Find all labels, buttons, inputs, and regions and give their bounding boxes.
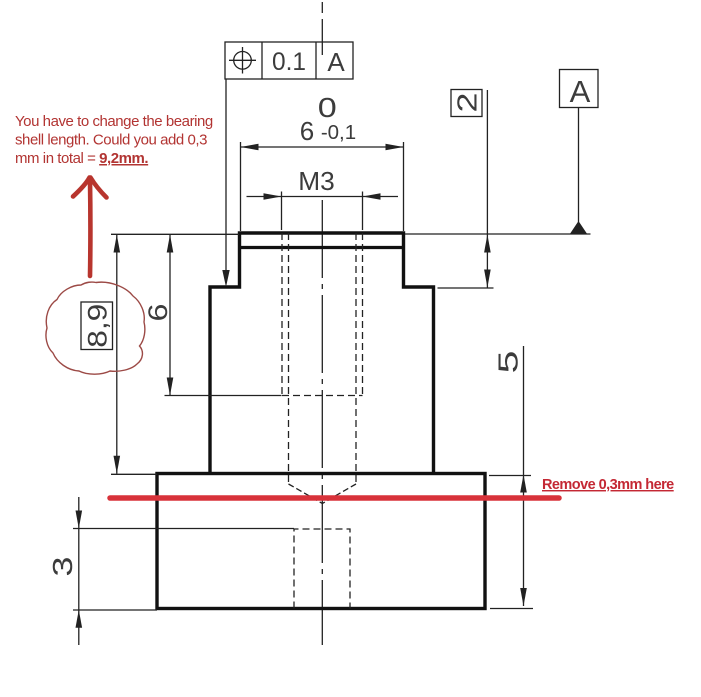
M3 right extension — [362, 192, 364, 231]
datum A box — [560, 70, 599, 108]
svg-text:6: 6 — [143, 304, 173, 322]
hidden drill cone — [289, 484, 357, 504]
groove line top plate — [240, 246, 404, 249]
dimension 6 -0,1 line — [241, 146, 404, 148]
svg-text:3: 3 — [47, 557, 78, 577]
part body upper outline — [210, 233, 434, 474]
dim 6 down arrow — [167, 378, 174, 396]
feature control frame — [225, 42, 353, 79]
svg-text:A: A — [570, 74, 591, 109]
svg-text:mm in total = 9,2mm.: mm in total = 9,2mm. — [15, 150, 148, 167]
M3 left arrow — [264, 193, 282, 200]
svg-text:0.1: 0.1 — [272, 48, 306, 76]
centerline — [321, 2, 323, 645]
dim 6-0,1 right extension — [403, 142, 405, 231]
svg-text:A: A — [327, 47, 345, 77]
svg-text:2: 2 — [451, 93, 482, 113]
dim 2 line — [486, 90, 488, 288]
hidden thread major left — [281, 233, 283, 396]
svg-text:-0,1: -0,1 — [321, 121, 356, 144]
hidden drill left — [288, 233, 290, 484]
top face extension line right — [405, 233, 591, 235]
dim 2 down arrow — [484, 270, 491, 288]
hidden thread bottom — [282, 395, 363, 397]
dim 6-0,1 left arrow — [241, 144, 259, 151]
dimension 3 line — [78, 497, 80, 645]
red removal line — [110, 495, 559, 501]
svg-text:Remove 0,3mm here: Remove 0,3mm here — [542, 477, 674, 493]
dim 8,9 bottom extension — [111, 473, 157, 475]
base flange — [157, 474, 485, 609]
dim 3 top arrow outside — [76, 511, 83, 529]
dim 5 down arrow — [520, 588, 527, 606]
M3 left extension — [281, 192, 283, 231]
leader line from frame — [225, 79, 227, 272]
dim 2 up arrow — [484, 235, 491, 253]
dim 5 top extension — [489, 475, 531, 477]
hidden thread major right — [362, 233, 364, 396]
red note text block — [15, 113, 213, 167]
dimension 2 box — [451, 90, 482, 117]
dim 6-0,1 left extension — [240, 142, 242, 231]
svg-text:6: 6 — [300, 116, 314, 146]
top face extension line left — [111, 233, 239, 235]
svg-text:M3: M3 — [298, 166, 335, 196]
leader arrow — [222, 270, 229, 287]
svg-text:0: 0 — [318, 92, 337, 123]
dim 5 bottom extension — [490, 608, 533, 610]
dim 6 bottom extension — [165, 395, 282, 397]
svg-text:shell length. Could you add 0,: shell length. Could you add 0,3 — [15, 132, 207, 149]
datum stem — [578, 108, 580, 223]
dim 3 bottom extension — [73, 609, 157, 611]
svg-text:5: 5 — [492, 351, 523, 374]
svg-text:8,9: 8,9 — [82, 304, 112, 348]
svg-text:You have to change the bearing: You have to change the bearing — [15, 113, 213, 130]
dim 3 bottom arrow outside — [76, 610, 83, 628]
dim 5 up arrow — [520, 475, 527, 493]
dimension 6 depth line — [169, 235, 171, 396]
dimension 5 line — [523, 346, 525, 606]
dim 3 top extension — [73, 528, 294, 530]
M3 right arrow — [363, 193, 381, 200]
dim 8,9 down arrow — [114, 456, 121, 474]
dim 8,9 up arrow — [114, 235, 121, 253]
datum triangle — [570, 221, 587, 234]
hidden counterbore — [294, 529, 350, 609]
red hand arrow — [73, 178, 107, 277]
red revision cloud around 8,9 — [46, 282, 145, 374]
dim 6-0,1 right arrow — [386, 144, 404, 151]
dimension 8,9 line — [116, 235, 118, 474]
dimension M3 line — [247, 196, 399, 198]
dim 6 up arrow — [167, 235, 174, 253]
hidden drill right — [355, 233, 357, 484]
dim 2 bottom extension — [438, 287, 494, 289]
box around 8,9 — [81, 302, 113, 350]
